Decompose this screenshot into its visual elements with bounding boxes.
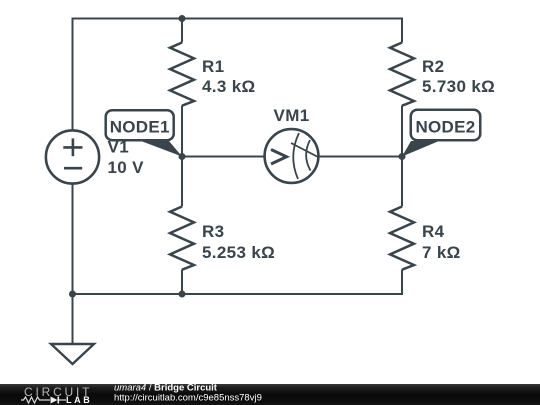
node NODE1 callout [106,110,182,156]
wire R2 bottom stub [401,106,403,157]
svg-text:R2: R2 [422,57,444,76]
wire R3 bottom stub [181,270,183,295]
junction dot top [179,15,186,22]
wire NODE1 to VM1 [182,156,264,158]
svg-text:R1: R1 [202,57,224,76]
wire R1 top stub [181,19,183,43]
svg-text:R3: R3 [202,222,224,241]
wire R1 bottom stub [181,106,183,157]
junction dot NODE1 [179,153,186,160]
svg-text:7 kΩ: 7 kΩ [422,243,461,262]
wire ground stem [72,294,74,343]
voltmeter VM1 [265,129,319,183]
resistor R2 [390,43,414,106]
svg-text:5.253 kΩ: 5.253 kΩ [202,243,275,262]
wire R4 top stub [401,157,403,207]
svg-text:R4: R4 [422,222,445,241]
footer bar [0,384,540,405]
resistor R3 [170,207,194,270]
svg-text:http://circuitlab.com/c9e85nss: http://circuitlab.com/c9e85nss78vj9 [114,393,262,404]
wire bottom horizontal [72,293,404,295]
wire left vertical upper [72,18,74,131]
ground [51,344,94,364]
svg-text:NODE1: NODE1 [110,118,170,137]
svg-text:5.730 kΩ: 5.730 kΩ [422,77,495,96]
junction dot bottom mid [179,291,186,298]
svg-text:NODE2: NODE2 [415,118,475,137]
node NODE2 callout [402,110,480,157]
wire left vertical lower [72,184,74,294]
svg-text:10 V: 10 V [108,158,145,177]
svg-text:4.3 kΩ: 4.3 kΩ [202,77,256,96]
wire top horizontal [72,18,404,20]
wire VM1 to NODE2 [320,156,403,158]
voltage source V1 [46,130,99,183]
resistor R1 [170,43,194,106]
junction dot bottom left [69,291,76,298]
svg-text:LAB: LAB [66,395,92,405]
svg-text:VM1: VM1 [274,106,310,125]
wire R4 bottom stub [401,270,403,296]
junction dot NODE2 [399,153,406,160]
resistor R4 [390,207,414,270]
wire R3 top stub [181,157,183,207]
CircuitLab logo [21,385,92,405]
wire R2 top stub [401,18,403,43]
